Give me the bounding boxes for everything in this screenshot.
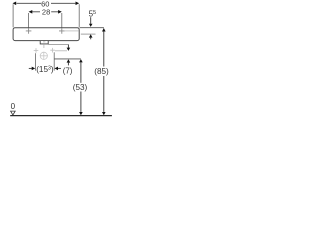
svg-text:(153): (153) — [36, 65, 54, 74]
dim (85) line upper — [103, 31, 105, 66]
extension line left (x=13.2) — [12, 4, 14, 27]
svg-text:28: 28 — [42, 8, 50, 17]
tap centre line right segment — [65, 30, 79, 32]
dim (53) line upper — [80, 62, 82, 82]
dim (85) bottom arrowhead — [102, 112, 106, 115]
svg-text:(85): (85) — [94, 67, 109, 76]
dimension 60 right arrow — [76, 2, 80, 6]
dim (15) right arrowhead — [55, 67, 59, 71]
extension line right (x=78.9) — [78, 4, 80, 27]
faint circle cross — [40, 52, 48, 60]
washbasin outline — [13, 28, 79, 41]
dim 5.5 upper arrow stem — [90, 17, 92, 24]
dim (7) bottom arrowhead — [67, 59, 71, 62]
trap notch — [40, 41, 48, 44]
tap hole cross left — [26, 28, 32, 34]
dim 5.5 lower arrow stem — [90, 38, 92, 40]
dim (53) bottom arrowhead — [79, 112, 83, 115]
tap hole cross right — [59, 28, 65, 34]
dim 5.5 lower arrowhead — [89, 34, 93, 37]
trap notch centre dash — [43, 41, 45, 43]
extension line x=28.6 — [28, 13, 30, 28]
faint cross right — [50, 48, 55, 53]
dimension 28 line — [32, 11, 58, 13]
rim extension line right — [80, 27, 104, 29]
dim (53) line lower — [80, 92, 82, 112]
floor line — [10, 115, 112, 117]
dim (7) bottom arrow stem — [67, 63, 69, 66]
faint cross left — [34, 48, 39, 53]
notch bottom extension to (7) — [48, 44, 68, 46]
dim (53) top arrowhead — [79, 59, 83, 62]
dim (7) top arrowhead — [67, 48, 71, 51]
svg-text:(7): (7) — [63, 67, 73, 76]
dimension 60 line — [17, 2, 76, 4]
svg-text:0: 0 — [11, 102, 16, 111]
dim (15) right extension line — [53, 52, 55, 70]
reference line 53cm level — [54, 58, 81, 60]
dim (15) right arrow stem — [58, 67, 61, 69]
trap centre stub below notch — [43, 44, 45, 48]
faint circle trap — [40, 52, 47, 59]
reference line 5.5 bottom — [81, 33, 96, 35]
extension line x=61.8 — [61, 13, 63, 28]
dimension 28 left arrow — [29, 10, 33, 14]
dim (15) left arrow stem — [29, 67, 32, 69]
dim (15) left arrowhead — [32, 67, 36, 71]
dim (7) top arrow stem — [67, 45, 69, 48]
dim (85) top arrowhead — [102, 28, 106, 32]
dimension 28 right arrow — [58, 10, 62, 14]
dim (15) left extension line — [35, 53, 37, 70]
svg-text:(53): (53) — [73, 83, 88, 92]
datum triangle — [11, 111, 16, 115]
reference line 60cm level — [55, 50, 67, 52]
dim 5.5 upper arrowhead — [89, 24, 93, 27]
dimension 60 left arrow — [13, 2, 17, 6]
dim (85) line lower — [103, 76, 105, 112]
